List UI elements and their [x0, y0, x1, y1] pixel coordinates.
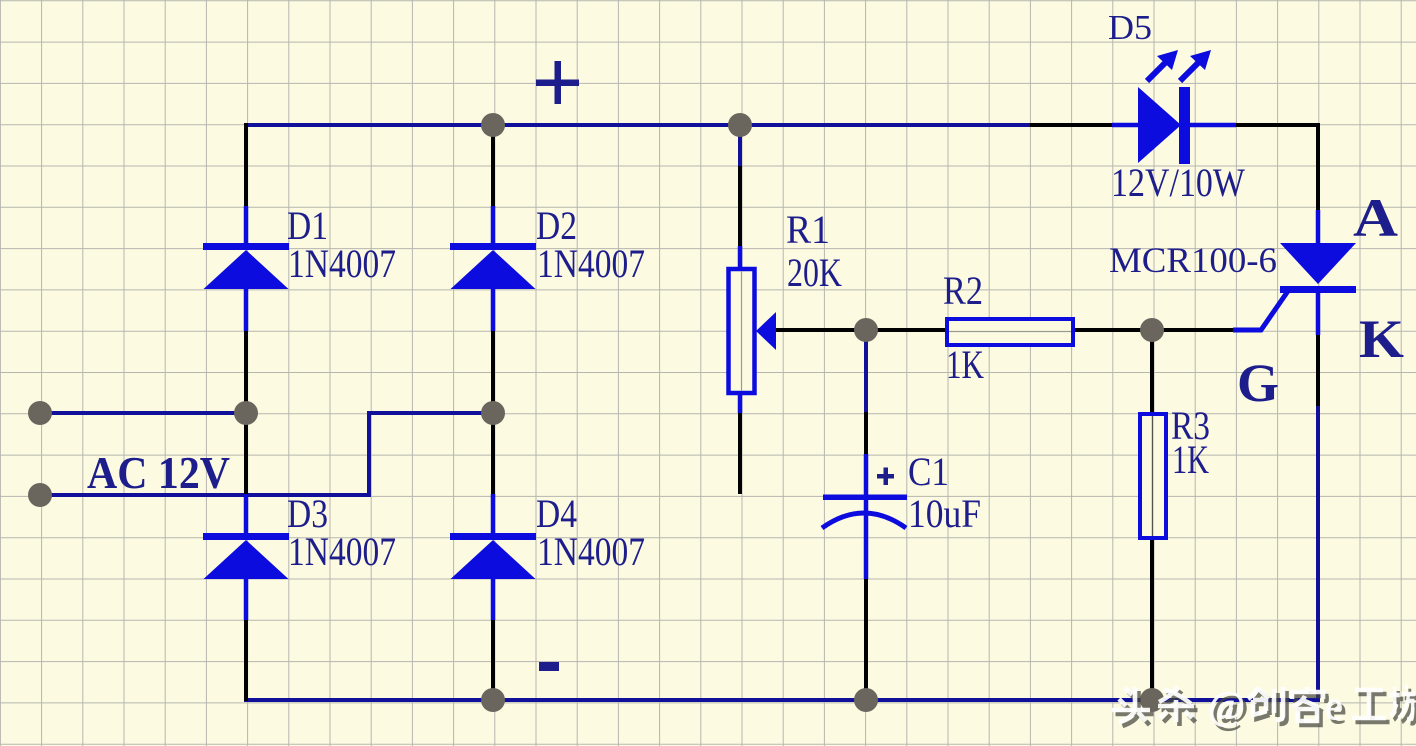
svg-text:A: A [1353, 188, 1398, 248]
svg-text:R2: R2 [943, 268, 983, 313]
svg-text:e: e [1325, 683, 1343, 728]
svg-text:AC 12V: AC 12V [87, 448, 230, 498]
svg-text:@: @ [1208, 683, 1245, 728]
svg-text:MCR100-6: MCR100-6 [1109, 240, 1277, 280]
svg-text:D5: D5 [1108, 8, 1152, 47]
svg-text:1N4007: 1N4007 [288, 241, 396, 286]
svg-text:K: K [1359, 309, 1404, 369]
svg-text:20K: 20K [787, 250, 842, 295]
svg-text:R1: R1 [786, 207, 830, 252]
svg-text:1N4007: 1N4007 [537, 529, 645, 574]
svg-text:1N4007: 1N4007 [288, 529, 396, 574]
svg-text:12V/10W: 12V/10W [1111, 160, 1245, 205]
svg-text:10uF: 10uF [908, 491, 981, 536]
svg-text:1N4007: 1N4007 [537, 241, 645, 286]
svg-text:G: G [1237, 353, 1279, 413]
svg-text:C1: C1 [908, 449, 949, 494]
svg-text:1K: 1K [946, 342, 984, 387]
svg-text:1K: 1K [1172, 437, 1209, 482]
